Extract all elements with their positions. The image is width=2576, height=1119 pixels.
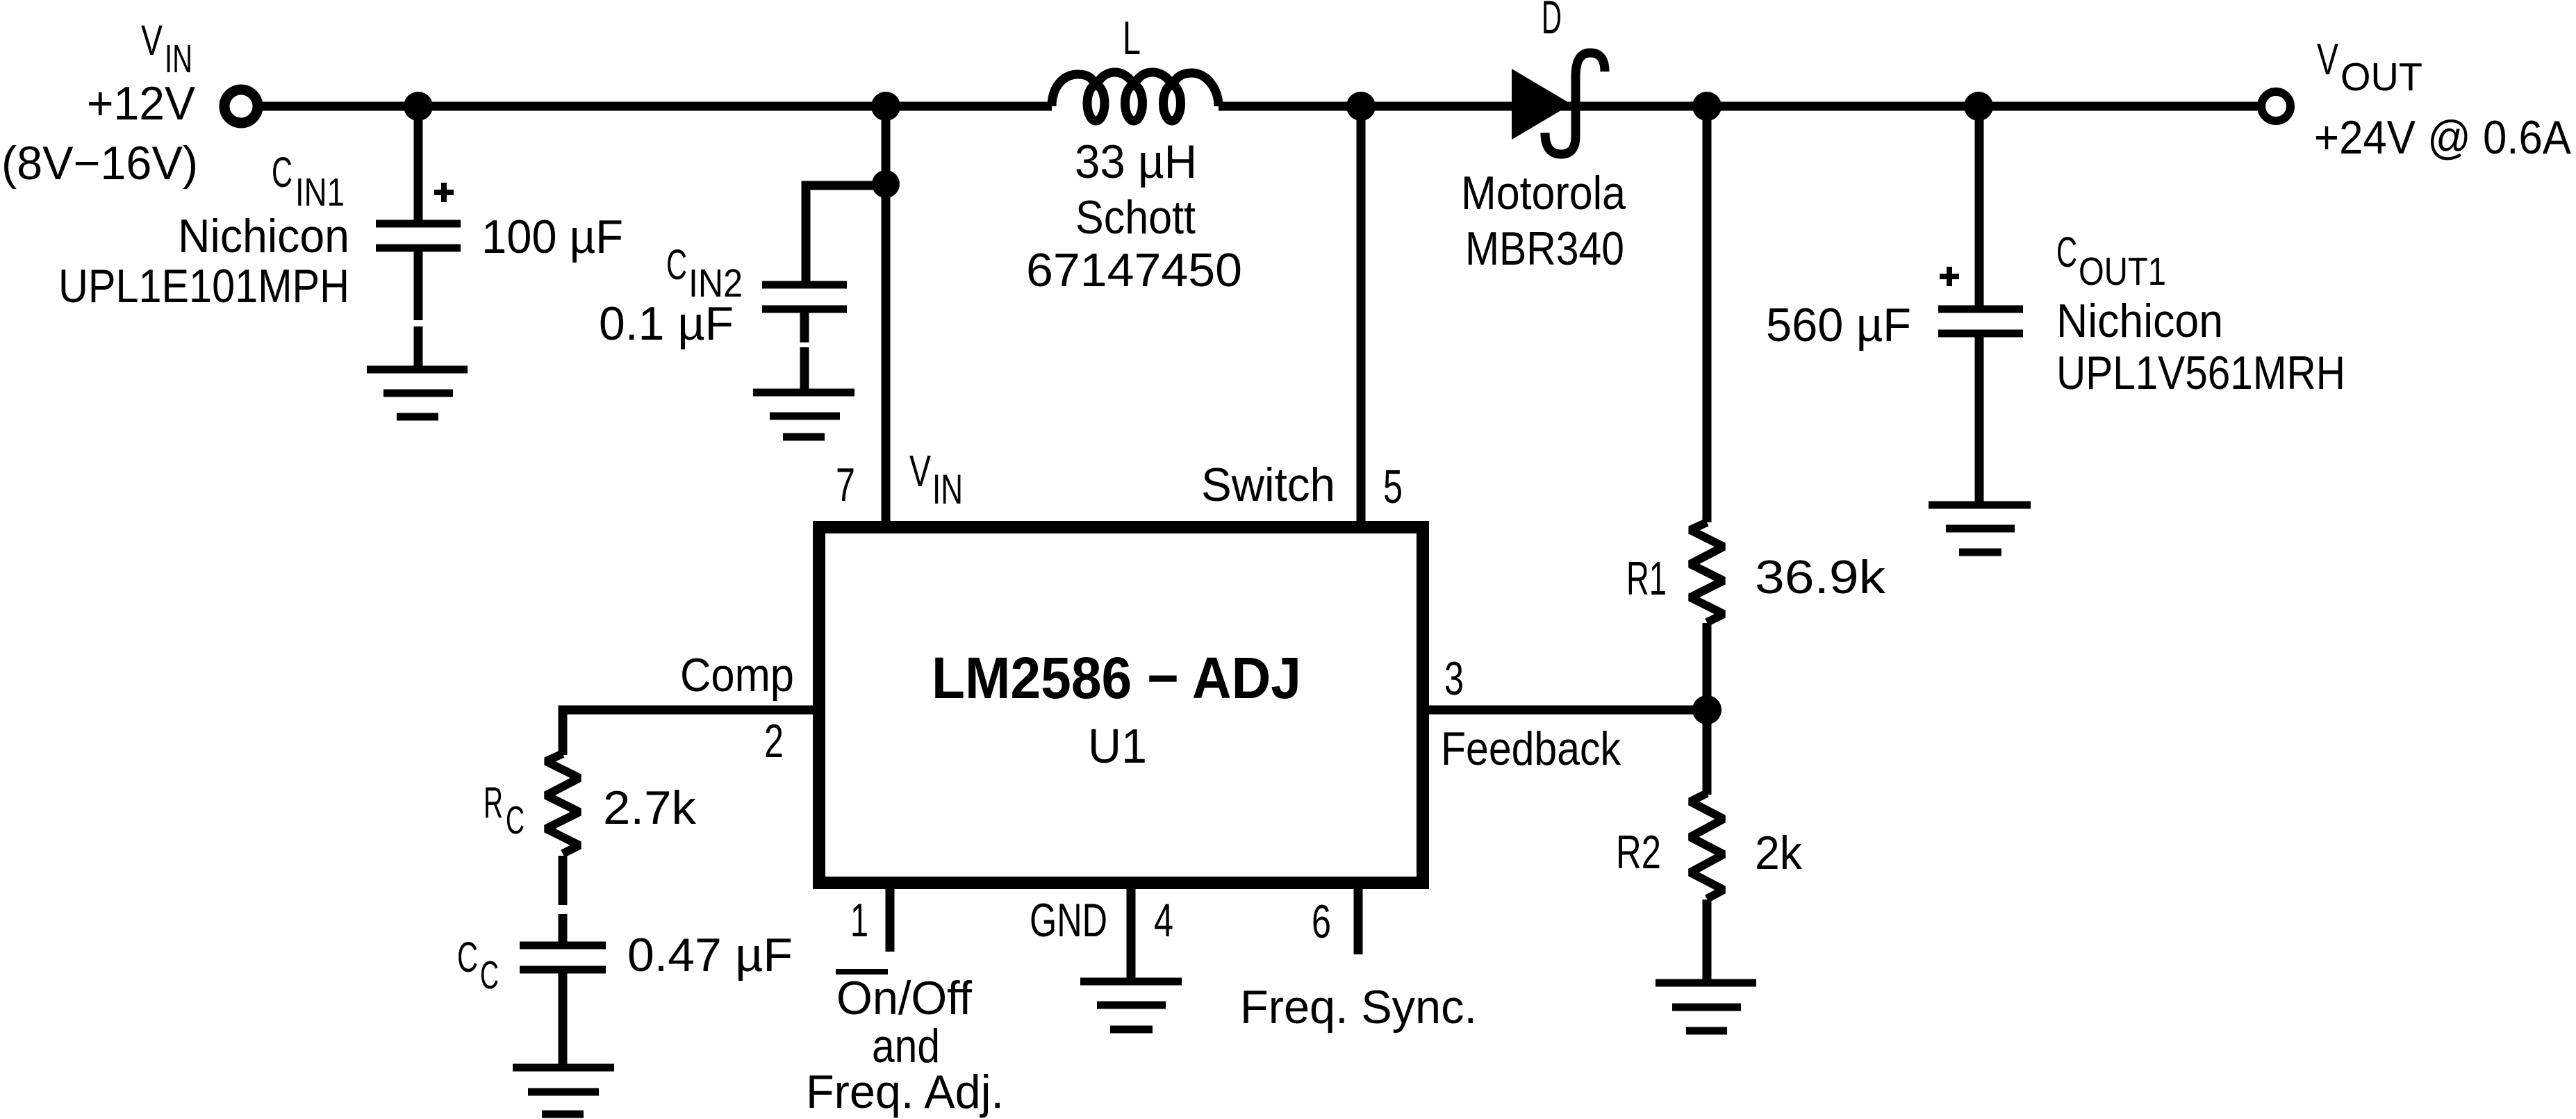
svg-text:Nichicon: Nichicon bbox=[178, 210, 349, 263]
svg-text:4: 4 bbox=[1154, 894, 1173, 947]
capacitor COUT1 bbox=[1938, 309, 2023, 333]
svg-text:LM2586 − ADJ: LM2586 − ADJ bbox=[932, 645, 1301, 711]
wire R1 lower lead bbox=[1703, 623, 1712, 710]
node J6 feedback junction bbox=[1692, 695, 1722, 724]
svg-text:L: L bbox=[1123, 12, 1141, 65]
svg-text:0.47 µF: 0.47 µF bbox=[627, 929, 793, 981]
svg-text:Switch: Switch bbox=[1201, 458, 1335, 511]
wire pin1 stub bbox=[886, 883, 895, 952]
wire comp pin2 bbox=[563, 710, 813, 755]
svg-text:5: 5 bbox=[1383, 461, 1403, 513]
svg-text:Comp: Comp bbox=[680, 649, 794, 702]
wire COUT1 lower lead bbox=[1975, 333, 1984, 506]
wire pin5 vertical bbox=[1357, 106, 1366, 522]
svg-text:UPL1V561MRH: UPL1V561MRH bbox=[2056, 347, 2345, 399]
svg-text:C: C bbox=[2056, 229, 2077, 276]
svg-text:IN1: IN1 bbox=[295, 170, 345, 215]
svg-text:67147450: 67147450 bbox=[1026, 244, 1242, 297]
op-amp U1 IC box LM2586 bbox=[819, 527, 1423, 883]
svg-text:IN: IN bbox=[932, 466, 963, 513]
wire CIN2 branch bbox=[806, 185, 886, 282]
wire CIN1 lower lead bbox=[414, 248, 423, 320]
svg-text:V: V bbox=[909, 446, 931, 496]
capacitor CC bbox=[520, 945, 606, 970]
ground R2 bbox=[1656, 983, 1756, 1031]
svg-text:33 µH: 33 µH bbox=[1075, 135, 1197, 188]
wire R2 upper lead bbox=[1703, 710, 1712, 795]
svg-text:R1: R1 bbox=[1626, 552, 1667, 605]
svg-text:+24V @ 0.6A: +24V @ 0.6A bbox=[2314, 111, 2572, 164]
svg-text:+12V: +12V bbox=[87, 77, 196, 130]
svg-text:1: 1 bbox=[850, 894, 868, 947]
svg-text:V: V bbox=[2317, 34, 2338, 84]
svg-text:Freq. Adj.: Freq. Adj. bbox=[806, 1066, 1004, 1118]
svg-text:OUT: OUT bbox=[2340, 55, 2422, 99]
svg-text:C: C bbox=[666, 241, 687, 288]
node J2 rail tap bbox=[871, 92, 900, 121]
wire R2 lower lead bbox=[1703, 900, 1712, 984]
diode D schottky bar bbox=[1545, 53, 1605, 154]
wire R1 upper lead bbox=[1703, 106, 1712, 522]
svg-text:R: R bbox=[484, 779, 503, 827]
wire RC to CC bbox=[559, 856, 568, 905]
svg-text:IN2: IN2 bbox=[688, 261, 743, 306]
svg-text:C: C bbox=[480, 953, 499, 997]
node J3 switch tap bbox=[1346, 92, 1376, 121]
ground CC bbox=[513, 1068, 614, 1114]
capacitor CIN2 bbox=[762, 285, 847, 309]
svg-text:2.7k: 2.7k bbox=[603, 781, 697, 834]
output terminal VOUT bbox=[2261, 92, 2290, 121]
svg-text:7: 7 bbox=[836, 458, 855, 511]
svg-text:(8V−16V): (8V−16V) bbox=[1, 137, 198, 190]
svg-text:On/Off: On/Off bbox=[836, 972, 972, 1025]
wire pin7 vertical bbox=[882, 106, 891, 522]
node J5 COUT1 tap bbox=[1964, 92, 1993, 121]
wire pin4 GND stub bbox=[1127, 883, 1136, 981]
plus sign COUT1 bbox=[1940, 267, 1959, 286]
svg-text:Freq. Sync.: Freq. Sync. bbox=[1240, 981, 1477, 1034]
ground CIN1 bbox=[367, 370, 468, 417]
svg-text:3: 3 bbox=[1444, 652, 1464, 705]
svg-text:Schott: Schott bbox=[1075, 191, 1196, 244]
inductor L bbox=[1052, 72, 1219, 121]
svg-text:Feedback: Feedback bbox=[1441, 722, 1621, 775]
wire top rail left segment bbox=[258, 102, 1052, 111]
wire CC lower lead bbox=[559, 970, 568, 1068]
svg-text:OUT1: OUT1 bbox=[2079, 249, 2166, 294]
svg-text:C: C bbox=[457, 934, 478, 981]
svg-text:560 µF: 560 µF bbox=[1766, 299, 1911, 351]
resistor R1 bbox=[1690, 522, 1724, 622]
wire CIN2 lower lead bbox=[800, 309, 809, 342]
svg-text:IN: IN bbox=[165, 37, 192, 81]
ground GND pin bbox=[1080, 981, 1182, 1029]
capacitor CIN1 bbox=[376, 224, 461, 248]
wire feedback pin3 bbox=[1423, 706, 1707, 715]
svg-text:Motorola: Motorola bbox=[1461, 167, 1626, 219]
diode D triangle bbox=[1512, 69, 1571, 140]
svg-text:UPL1E101MPH: UPL1E101MPH bbox=[58, 260, 349, 313]
svg-text:and: and bbox=[872, 1020, 940, 1072]
svg-text:6: 6 bbox=[1312, 895, 1331, 948]
input terminal VIN bbox=[224, 90, 258, 123]
wire top rail right segment bbox=[1219, 102, 2261, 111]
svg-text:V: V bbox=[141, 17, 163, 64]
ground CIN2 bbox=[753, 392, 854, 437]
svg-text:36.9k: 36.9k bbox=[1755, 551, 1886, 604]
svg-text:Nichicon: Nichicon bbox=[2056, 295, 2223, 347]
svg-text:100 µF: 100 µF bbox=[481, 210, 623, 263]
svg-text:GND: GND bbox=[1030, 894, 1107, 947]
svg-text:U1: U1 bbox=[1088, 719, 1147, 773]
node J4 diode out tap bbox=[1692, 92, 1722, 121]
On/Off overline bbox=[836, 969, 888, 975]
resistor RC bbox=[546, 754, 579, 854]
plus sign CIN1 bbox=[434, 183, 454, 202]
wire pin6 stub bbox=[1354, 883, 1363, 954]
svg-text:R2: R2 bbox=[1616, 826, 1661, 879]
svg-text:2k: 2k bbox=[1755, 827, 1803, 879]
wire CIN1 upper lead bbox=[414, 106, 423, 222]
svg-text:D: D bbox=[1542, 0, 1562, 44]
node J1 CIN1 tap bbox=[404, 92, 433, 121]
node J2b CIN2 branch tap bbox=[872, 170, 900, 198]
wire COUT1 upper lead bbox=[1975, 106, 1984, 307]
resistor R2 bbox=[1690, 793, 1724, 899]
svg-text:C: C bbox=[506, 798, 525, 843]
ground COUT1 bbox=[1929, 505, 2031, 552]
svg-text:C: C bbox=[272, 149, 292, 196]
svg-text:2: 2 bbox=[764, 715, 784, 768]
svg-text:MBR340: MBR340 bbox=[1465, 222, 1624, 275]
